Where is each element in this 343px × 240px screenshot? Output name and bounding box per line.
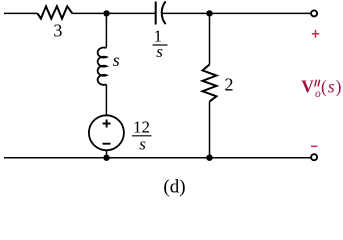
- wire resistor to capacitor: [72, 12, 155, 14]
- svg-text:s: s: [139, 135, 146, 154]
- red plus sign: [312, 30, 319, 38]
- wire top-left segment: [4, 12, 38, 14]
- bottom wire: [4, 157, 310, 159]
- wire capacitor to right: [162, 12, 311, 14]
- resistor R2 value 2: [203, 65, 217, 102]
- voltage source plus sign: [103, 120, 111, 128]
- output label Vo''(s): [301, 77, 342, 101]
- wire source to bottom: [106, 150, 108, 157]
- terminal top-right open circle: [311, 10, 317, 16]
- wire node A to inductor: [105, 13, 107, 47]
- voltage source minus sign: [103, 143, 111, 145]
- svg-text:2: 2: [225, 74, 234, 94]
- node B dot (top right junction): [206, 10, 212, 16]
- label 12/s: [132, 118, 152, 154]
- svg-text:(s): (s): [321, 77, 342, 97]
- svg-text:(d): (d): [163, 177, 185, 198]
- svg-text:V: V: [301, 77, 314, 97]
- label 1/s: [153, 27, 168, 61]
- node D dot (bottom right junction): [206, 155, 212, 161]
- red minus sign: [311, 145, 318, 147]
- resistor R1 value 3: [38, 6, 73, 18]
- wire inductor to source: [105, 85, 107, 116]
- wire node B to resistor 2: [209, 13, 211, 64]
- inductor L value s: [98, 48, 107, 85]
- svg-text:s: s: [113, 50, 120, 70]
- capacitor C1 left plate: [155, 2, 157, 25]
- node A dot (top left junction): [103, 10, 109, 16]
- svg-text:s: s: [156, 42, 163, 61]
- svg-text:3: 3: [53, 21, 62, 41]
- wire resistor 2 to bottom: [209, 102, 211, 158]
- voltage source V1 circle: [89, 115, 124, 150]
- node C dot (bottom left junction): [103, 155, 109, 161]
- capacitor C1 right curved plate: [162, 1, 166, 24]
- terminal bottom-right open circle: [311, 154, 317, 160]
